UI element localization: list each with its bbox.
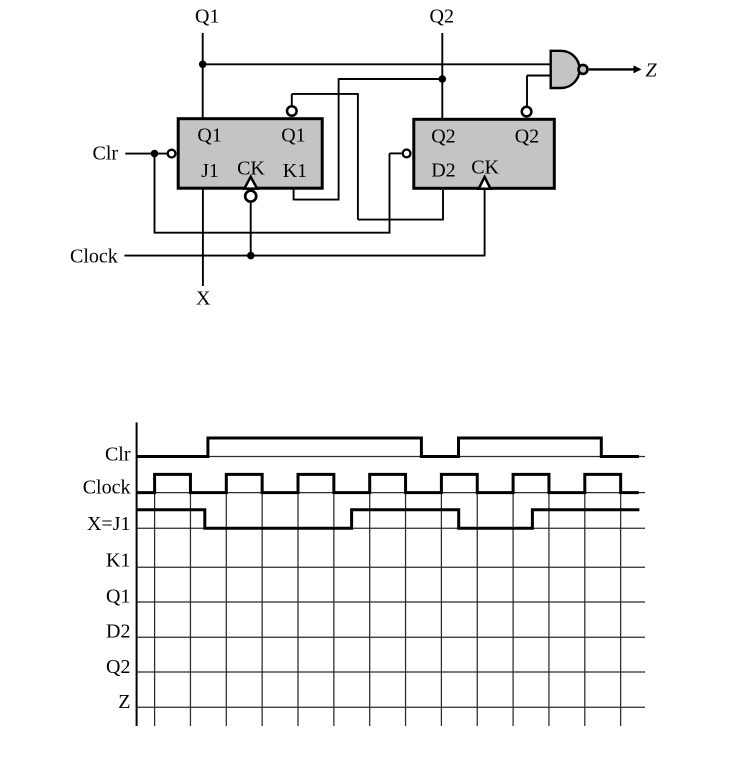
wire X input to J1 (202, 189, 204, 286)
svg-text:Q2: Q2 (515, 126, 539, 148)
svg-text:K1: K1 (106, 550, 130, 572)
row Q1: baseline (137, 601, 645, 603)
X=J1 waveform (137, 510, 640, 529)
svg-text:CK: CK (471, 157, 499, 179)
wire Q2 to K1 horizontal upper (339, 78, 443, 80)
Clock waveform (137, 474, 639, 492)
U1 CK bubble (245, 191, 256, 202)
wire Clr vertical drop (154, 154, 156, 233)
U2 CK edge triangle (479, 177, 491, 189)
svg-text:Q2: Q2 (430, 6, 454, 28)
wire Q2 to K1 vertical (338, 78, 340, 199)
junction on Q1 net (199, 61, 207, 69)
svg-text:Q2: Q2 (106, 656, 130, 678)
U1 CK edge triangle (244, 177, 257, 189)
NAND U3 output bubble (579, 65, 588, 74)
junction Clock at U1 CK (247, 252, 255, 260)
U2 Q2' output bubble (522, 107, 532, 117)
wire Q1' bubble up stub (291, 94, 293, 107)
svg-text:Clr: Clr (105, 443, 131, 465)
U1 clear input bubble (168, 150, 176, 158)
wire Clr horizontal run (154, 232, 391, 234)
svg-text:Q1: Q1 (106, 585, 130, 607)
timing grid vertical lines (155, 493, 621, 726)
wire Q1' to D2 horizontal lower (358, 219, 443, 221)
wire Q1' to D2 horizontal upper (292, 93, 358, 95)
svg-text:Clock: Clock (70, 246, 118, 268)
NAND gate U3 body (551, 51, 580, 88)
wire Q1 to NAND U3 top input (203, 63, 552, 65)
svg-text:Q1: Q1 (281, 125, 305, 147)
wire K1 pin stub (293, 189, 295, 200)
svg-text:K1: K1 (283, 160, 307, 182)
wire Clr riser to FF2 (389, 153, 391, 233)
wire D2 pin stub (442, 190, 444, 220)
svg-text:Q1: Q1 (195, 6, 219, 28)
svg-text:Q2: Q2 (431, 126, 455, 148)
wire Clock main run (124, 255, 484, 257)
U2 clear input bubble (403, 150, 411, 158)
svg-text:X: X (196, 288, 211, 310)
timing diagram axis vertical (136, 422, 138, 726)
row Q2: baseline (137, 671, 645, 673)
row K1: baseline (137, 566, 645, 568)
svg-text:D2: D2 (431, 160, 455, 182)
svg-text:D2: D2 (106, 621, 130, 643)
flip-flop U2 body (D flip-flop) (414, 119, 555, 188)
junction on Clr net (151, 150, 159, 158)
svg-text:Clock: Clock (83, 476, 131, 498)
wire Q2' to NAND U3 bottom input (527, 75, 552, 77)
svg-text:J1: J1 (201, 160, 219, 182)
wire Q2' bubble up stub (526, 76, 528, 108)
svg-text:Q1: Q1 (197, 125, 221, 147)
row Clr: baseline (137, 456, 645, 458)
wire Q1 vertical from label to FF1 top (202, 33, 204, 119)
row X=J1: baseline (137, 527, 645, 529)
wire Q2 vertical from label to FF2 top (441, 33, 443, 120)
svg-text:Z: Z (646, 59, 658, 81)
wire Clock riser to U2 CK (484, 190, 486, 256)
wire NAND output to Z (589, 68, 635, 70)
junction on Q2 net (439, 75, 447, 83)
arrowhead at Z (634, 65, 642, 73)
row Z: baseline (137, 706, 645, 708)
wire Clr input lead (125, 153, 167, 155)
svg-text:X=J1: X=J1 (87, 513, 131, 535)
svg-text:Z: Z (118, 691, 130, 713)
wire Q2 to K1 horizontal lower (294, 199, 340, 201)
flip-flop U1 body (JK flip-flop) (178, 119, 322, 189)
row Clock: baseline (137, 492, 645, 494)
wire Clr into FF2 clear bubble (390, 152, 402, 154)
U1 Q1' output bubble (287, 106, 297, 116)
Clr waveform (137, 438, 639, 457)
svg-text:Clr: Clr (93, 143, 119, 165)
row D2: baseline (137, 636, 645, 638)
wire Q1' to D2 vertical (357, 93, 359, 220)
wire U1 CK bubble to Clock line (250, 203, 252, 256)
